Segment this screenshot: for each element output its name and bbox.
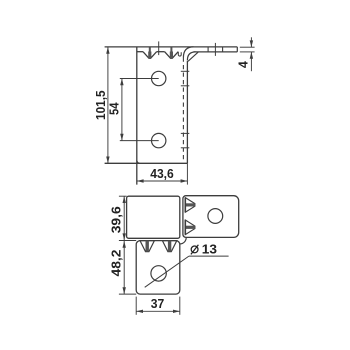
bottom edge line (incl. extension for 101,5 dim) [105, 162, 188, 164]
diameter 13 text [191, 246, 198, 253]
leader line for diameter 13 [145, 256, 189, 287]
countersink triangle T1 on plate [185, 198, 195, 213]
dimension 4 arrow lower [250, 52, 253, 59]
countersink T2 bore dark band [185, 226, 195, 229]
svg-text:37: 37 [151, 296, 165, 311]
hole H3 in lower rectangle [151, 266, 166, 281]
side-view hole edge tick (H1 bottom) [181, 85, 190, 87]
leader landing line [189, 255, 229, 257]
dimension 101,5 arrow top [106, 47, 109, 54]
dimension 54 arrow bottom [120, 134, 123, 141]
bend relief notch at strip right end [178, 52, 181, 56]
top view left rectangle (leg depth) [127, 196, 180, 238]
dimension 43,6 line [137, 180, 188, 182]
svg-text:13: 13 [202, 241, 217, 256]
dimension 39,6 arrow bottom [123, 233, 126, 240]
dimension 48,2 line [123, 241, 125, 294]
dimension 48,2 bottom extension [119, 293, 136, 295]
side leg hidden (dashed) outer surface [182, 58, 184, 162]
dimension 43,6 arrow right [181, 179, 188, 182]
side-view hole edge tick (H2 top) [181, 132, 190, 134]
horizontal leg lower line [194, 51, 238, 53]
dimension 4 line upper [250, 37, 252, 47]
dimension 37 left extension [135, 297, 137, 315]
dimension 4 extension top [240, 46, 255, 48]
dimension 4 arrow upper [250, 40, 253, 47]
countersink V2 bore dark band [170, 47, 172, 51]
bend hook arc between plate and lower rectangle [180, 237, 186, 244]
countersink T2 base line [184, 220, 186, 235]
countersink V2 in top strip [165, 52, 179, 59]
countersink V3 in lower rectangle [140, 241, 154, 252]
shared middle extension line [119, 240, 136, 242]
dimension 37 right extension [179, 297, 181, 315]
bottom-left corner fillet [137, 160, 140, 163]
dimension 54 extension bottom (to hole centre) [120, 140, 159, 142]
dimension 101,5 line [107, 47, 109, 163]
svg-text:48,2: 48,2 [108, 250, 123, 277]
countersink V4 bore dark band [168, 241, 171, 252]
bend diagonal line [188, 52, 199, 62]
hole H1 (upper round hole) [152, 71, 166, 85]
countersink V1 bore dark band [149, 47, 151, 51]
countersink T1 base line [184, 198, 186, 213]
countersink T1 bore dark band [185, 203, 195, 206]
countersink triangle T2 on plate [185, 220, 195, 235]
dimension 37 arrow left [136, 310, 143, 313]
front plate left edge (extends down as extension line for 43,6) [136, 47, 138, 185]
svg-text:54: 54 [107, 102, 122, 115]
countersink V1 in top strip [143, 52, 157, 59]
leg hole wall right [222, 47, 224, 52]
dimension 54 arrow top [120, 79, 123, 86]
dimension 39,6 line [123, 196, 125, 240]
strip bottom line segment A [137, 51, 143, 53]
dimension 37 arrow right [173, 310, 180, 313]
side leg inner surface (solid) [186, 61, 188, 164]
hole H2 (lower round hole) [152, 133, 166, 147]
hole centreline through strip [158, 41, 160, 55]
side-view hole edge tick (H1 top) [181, 70, 190, 72]
dimension 54 line [121, 79, 123, 141]
plate hole (round, plain) [208, 209, 223, 224]
dimension 39,6 top extension [119, 195, 127, 197]
svg-text:4: 4 [235, 60, 250, 68]
dimension 43,6 arrow left [137, 179, 144, 182]
top view hole plate (rounded) [183, 196, 239, 238]
svg-text:43,6: 43,6 [150, 166, 174, 181]
dimension 54 extension top (to hole centre) [120, 78, 159, 80]
dimension 4 line lower [250, 52, 252, 71]
side-view hole edge tick (H2 bottom) [181, 147, 190, 149]
top edge line (incl. extension for 101,5 dim) [105, 46, 238, 48]
horizontal leg end [236, 47, 238, 52]
countersink V3 bore dark band [146, 241, 149, 252]
inner bend arc [187, 52, 195, 60]
dimension 101,5 arrow bottom [106, 157, 109, 164]
dimension 43,6 right extension [186, 163, 188, 184]
leg hole centreline [214, 43, 216, 56]
dimension 39,6 arrow top [123, 196, 126, 203]
outer bend arc [183, 47, 193, 58]
countersink V4 in lower rectangle [162, 241, 176, 252]
strip bottom line segment B [157, 51, 165, 53]
leg hole wall left [207, 47, 209, 52]
dimension 37 line [136, 310, 180, 312]
dimension 48,2 arrow bottom [123, 287, 126, 294]
svg-text:39,6: 39,6 [108, 206, 123, 233]
dimension 4 extension bottom [240, 51, 255, 53]
dimension 48,2 arrow top [123, 241, 126, 248]
svg-text:101,5: 101,5 [93, 90, 108, 120]
lower rectangle (vertical leg, folded view) [136, 241, 180, 295]
